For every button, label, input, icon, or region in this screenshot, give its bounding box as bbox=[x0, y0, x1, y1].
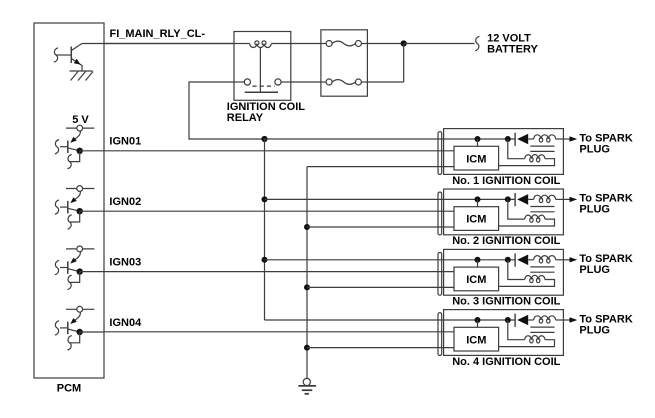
svg-text:ICM: ICM bbox=[466, 153, 486, 165]
svg-text:No. 2 IGNITION COIL: No. 2 IGNITION COIL bbox=[452, 235, 560, 247]
ignition coil 2 box bbox=[444, 189, 564, 235]
wire to lower connector (Q5) bbox=[70, 332, 80, 343]
IGN04 driver pull-up line bbox=[66, 308, 94, 310]
connector bracket coil 3 bbox=[438, 253, 442, 296]
svg-text:PCM: PCM bbox=[57, 383, 81, 395]
svg-text:PLUG: PLUG bbox=[579, 204, 610, 216]
relay coil L1 bbox=[250, 44, 272, 48]
wire secondary to output coil 2 bbox=[556, 198, 564, 200]
node power bus coil2 dot bbox=[262, 196, 268, 202]
node coil 4 dot to ICM bbox=[475, 317, 481, 323]
wire power feed coil 1 bbox=[265, 138, 516, 140]
node battery junction dot bbox=[401, 40, 407, 46]
arrow to spark plug coil 3 bbox=[570, 257, 578, 262]
relay contact dashed line bbox=[252, 85, 274, 87]
wire ground bus vertical bbox=[306, 167, 308, 379]
fuse F2 wire left bbox=[321, 81, 326, 83]
IGN03 driver pull-up line bbox=[66, 248, 94, 250]
lower connector squiggle (Q5) bbox=[68, 336, 72, 350]
lower connector squiggle (Q4) bbox=[68, 275, 72, 289]
transistor Q3 bbox=[75, 191, 81, 199]
wire coil 3 node to primary winding bbox=[508, 260, 525, 280]
primary winding coil 3 bbox=[525, 275, 545, 279]
transformer core coil 4 bbox=[530, 326, 554, 328]
svg-text:IGN02: IGN02 bbox=[109, 196, 141, 208]
svg-text:No. 3 IGNITION COIL: No. 3 IGNITION COIL bbox=[452, 296, 560, 308]
transistor Q2 base connector squiggle bbox=[55, 140, 59, 154]
wire ground coil 2 bbox=[307, 226, 454, 228]
primary winding coil 1 bbox=[525, 155, 545, 159]
ICM module coil 1 bbox=[454, 146, 499, 170]
node IGN03 junction dot bbox=[77, 268, 83, 274]
wire diode to secondary winding coil 2 bbox=[528, 198, 534, 200]
node ground bus coil2 dot bbox=[304, 224, 310, 230]
svg-text:PLUG: PLUG bbox=[579, 264, 610, 276]
wire secondary to output coil 4 bbox=[556, 319, 564, 321]
wire to lower connector (Q4) bbox=[70, 272, 80, 283]
arrow to spark plug coil 2 bbox=[570, 197, 578, 202]
fuse F1 wire right bbox=[361, 43, 367, 45]
node coil 1 dot to primary bbox=[505, 136, 511, 142]
IGN01 driver pull-up circle bbox=[77, 125, 83, 131]
wire diode to secondary winding coil 1 bbox=[528, 138, 534, 140]
wire IGN02 inside PCM bbox=[80, 210, 104, 212]
fuse F2 terminal left bbox=[326, 79, 332, 85]
transformer core coil 3 bbox=[530, 266, 554, 268]
wire ground coil 4 bbox=[307, 347, 454, 349]
wire coil 2 node to ICM bbox=[477, 199, 479, 206]
node coil 2 dot to ICM bbox=[475, 196, 481, 202]
IGN01 driver pull-up line bbox=[66, 127, 94, 129]
node power bus coil3 dot bbox=[262, 257, 268, 263]
wire coil 3 output to spark plug bbox=[563, 259, 569, 261]
svg-text:PLUG: PLUG bbox=[579, 143, 610, 155]
wire battery node to battery bbox=[404, 43, 475, 45]
svg-text:ICM: ICM bbox=[466, 334, 486, 346]
IGN02 driver pull-up circle bbox=[77, 186, 83, 192]
wire primary to ICM coil 3 bbox=[499, 280, 555, 287]
wire coil 2 output to spark plug bbox=[563, 198, 569, 200]
IGN04 driver pull-up circle bbox=[77, 306, 83, 312]
wire power feed coil 4 bbox=[265, 319, 516, 321]
fuse F1 terminal left bbox=[326, 41, 332, 47]
wire coil 2 node to primary winding bbox=[508, 199, 525, 219]
secondary winding coil 3 bbox=[534, 256, 556, 260]
connector bracket coil 4 bbox=[438, 313, 442, 356]
PCM box bbox=[34, 23, 104, 378]
diode D3 bbox=[514, 253, 516, 266]
wire power bus vertical bbox=[264, 139, 266, 320]
wire to lower connector (Q2) bbox=[70, 151, 80, 162]
transistor Q5 base connector squiggle bbox=[55, 321, 59, 335]
wire IGN03 inside PCM bbox=[80, 271, 104, 273]
fuse box bbox=[321, 30, 368, 96]
node coil 3 dot to primary bbox=[505, 257, 511, 263]
svg-text:RELAY: RELAY bbox=[227, 112, 264, 124]
ignition coil 3 box bbox=[444, 249, 564, 295]
transistor Q1 base wire bbox=[56, 54, 71, 56]
wire power feed coil 2 bbox=[265, 198, 516, 200]
primary winding coil 2 bbox=[525, 215, 545, 219]
svg-text:BATTERY: BATTERY bbox=[487, 44, 538, 56]
lower connector squiggle (Q2) bbox=[68, 154, 72, 168]
ground (Q1 emitter) bbox=[70, 70, 93, 72]
transistor Q1 base connector squiggle bbox=[54, 48, 58, 62]
wire diode to secondary winding coil 3 bbox=[528, 259, 534, 261]
IGN03 driver pull-up circle bbox=[77, 246, 83, 252]
fuse F1 element bbox=[332, 41, 355, 46]
transistor Q2 bbox=[75, 131, 81, 139]
diode D1 bbox=[514, 133, 516, 146]
wire coil 3 node to ICM bbox=[477, 260, 479, 267]
wire secondary to output coil 3 bbox=[556, 259, 564, 261]
wire primary to ICM coil 1 bbox=[499, 159, 555, 166]
transistor Q3 base connector squiggle bbox=[55, 200, 59, 214]
wire coil 1 output to spark plug bbox=[563, 138, 569, 140]
relay coil wire right bbox=[271, 43, 291, 45]
relay contact circle left bbox=[244, 79, 250, 85]
fuse F2 element bbox=[332, 80, 355, 85]
ignition coil relay box bbox=[234, 32, 291, 101]
fuse F2 wire right bbox=[361, 81, 367, 83]
wire ground coil 3 bbox=[307, 286, 454, 288]
wire ground coil 1 bbox=[307, 166, 454, 168]
wire power feed coil 3 bbox=[265, 259, 516, 261]
node coil 2 dot to primary bbox=[505, 196, 511, 202]
ground (chassis) bbox=[303, 378, 310, 385]
transistor Q4 base connector squiggle bbox=[55, 260, 59, 274]
wire to lower connector (Q3) bbox=[70, 211, 80, 222]
diode D2 bbox=[514, 193, 516, 206]
wire IGN04 signal PCM to ICM bbox=[104, 331, 454, 333]
wire coil 1 node to ICM bbox=[477, 139, 479, 146]
lower connector squiggle (Q3) bbox=[68, 215, 72, 229]
relay contact wire left bbox=[234, 81, 244, 83]
wire relay output down-feed bbox=[189, 82, 265, 139]
ignition coil 4 box bbox=[444, 310, 564, 356]
node IGN02 junction dot bbox=[77, 208, 83, 214]
wire diode to secondary winding coil 4 bbox=[528, 319, 534, 321]
arrow to spark plug coil 1 bbox=[570, 136, 578, 141]
secondary winding coil 1 bbox=[534, 135, 556, 139]
wire primary to ICM coil 4 bbox=[499, 340, 555, 347]
node coil 1 dot to ICM bbox=[475, 136, 481, 142]
node IGN04 junction dot bbox=[77, 329, 83, 335]
node IGN01 junction dot bbox=[77, 148, 83, 154]
transformer core coil 1 bbox=[530, 145, 554, 147]
connector bracket coil 1 bbox=[438, 132, 442, 175]
transformer core coil 2 bbox=[530, 206, 554, 208]
connector to 12 volt battery bbox=[475, 36, 479, 50]
fuse F1 terminal right bbox=[355, 41, 361, 47]
node power bus top dot bbox=[261, 136, 267, 142]
relay armature link bbox=[259, 47, 261, 92]
wire secondary to output coil 1 bbox=[556, 138, 564, 140]
connector bracket coil 2 bbox=[438, 192, 442, 235]
svg-text:IGNITION COIL: IGNITION COIL bbox=[227, 101, 305, 113]
wire coil 1 node to primary winding bbox=[508, 139, 525, 159]
svg-text:ICM: ICM bbox=[466, 214, 486, 226]
svg-text:IGN01: IGN01 bbox=[109, 136, 141, 148]
svg-text:FI_MAIN_RLY_CL-: FI_MAIN_RLY_CL- bbox=[110, 28, 206, 40]
wire relay to fuse box (bottom) bbox=[291, 81, 321, 83]
svg-text:IGN04: IGN04 bbox=[109, 317, 142, 329]
relay contact circle right bbox=[275, 79, 281, 85]
ICM module coil 3 bbox=[454, 267, 499, 291]
wire coil 4 output to spark plug bbox=[563, 319, 569, 321]
secondary winding coil 2 bbox=[534, 195, 556, 199]
wire primary to ICM coil 2 bbox=[499, 219, 555, 226]
wire IGN03 signal PCM to ICM bbox=[104, 271, 454, 273]
wire coil 4 node to ICM bbox=[477, 320, 479, 327]
node ground bus coil4 dot bbox=[304, 345, 310, 351]
node ground bus coil3 dot bbox=[304, 284, 310, 290]
ignition coil 1 box bbox=[444, 129, 564, 175]
wire IGN01 inside PCM bbox=[80, 150, 104, 152]
wire FI_MAIN_RLY_CL- (Q1 collector to relay) bbox=[82, 43, 234, 45]
relay contact wire right bbox=[281, 81, 291, 83]
relay coil wire left bbox=[234, 43, 250, 45]
wire IGN01 signal PCM to ICM bbox=[104, 150, 454, 152]
node coil 4 dot to primary bbox=[505, 317, 511, 323]
wire fuse to battery node bbox=[367, 43, 403, 45]
fuse F2 terminal right bbox=[355, 79, 361, 85]
svg-text:ICM: ICM bbox=[466, 274, 486, 286]
svg-text:PLUG: PLUG bbox=[579, 324, 610, 336]
arrow to spark plug coil 4 bbox=[570, 317, 578, 322]
primary winding coil 4 bbox=[525, 336, 545, 340]
svg-text:No. 1 IGNITION COIL: No. 1 IGNITION COIL bbox=[452, 175, 560, 187]
ICM module coil 4 bbox=[454, 327, 499, 351]
diode D4 bbox=[514, 314, 516, 327]
transistor Q5 bbox=[75, 312, 81, 320]
relay armature bar bbox=[245, 91, 278, 93]
wire IGN04 inside PCM bbox=[80, 331, 104, 333]
svg-text:No. 4 IGNITION COIL: No. 4 IGNITION COIL bbox=[452, 356, 560, 368]
wire PCM to ignition coil relay bbox=[104, 43, 234, 45]
node coil 3 dot to ICM bbox=[475, 257, 481, 263]
wire relay to fuse box (top) bbox=[291, 43, 321, 45]
wire IGN02 signal PCM to ICM bbox=[104, 210, 454, 212]
secondary winding coil 4 bbox=[534, 316, 556, 320]
transistor Q4 bbox=[75, 252, 81, 260]
svg-text:IGN03: IGN03 bbox=[109, 257, 141, 269]
IGN02 driver pull-up line bbox=[66, 188, 94, 190]
transistor Q1 bbox=[70, 47, 72, 64]
wire fuse F2 to battery node bbox=[367, 81, 403, 83]
fuse F1 wire left bbox=[321, 43, 326, 45]
ICM module coil 2 bbox=[454, 207, 499, 231]
svg-text:5 V: 5 V bbox=[72, 114, 89, 126]
wire coil 4 node to primary winding bbox=[508, 320, 525, 340]
